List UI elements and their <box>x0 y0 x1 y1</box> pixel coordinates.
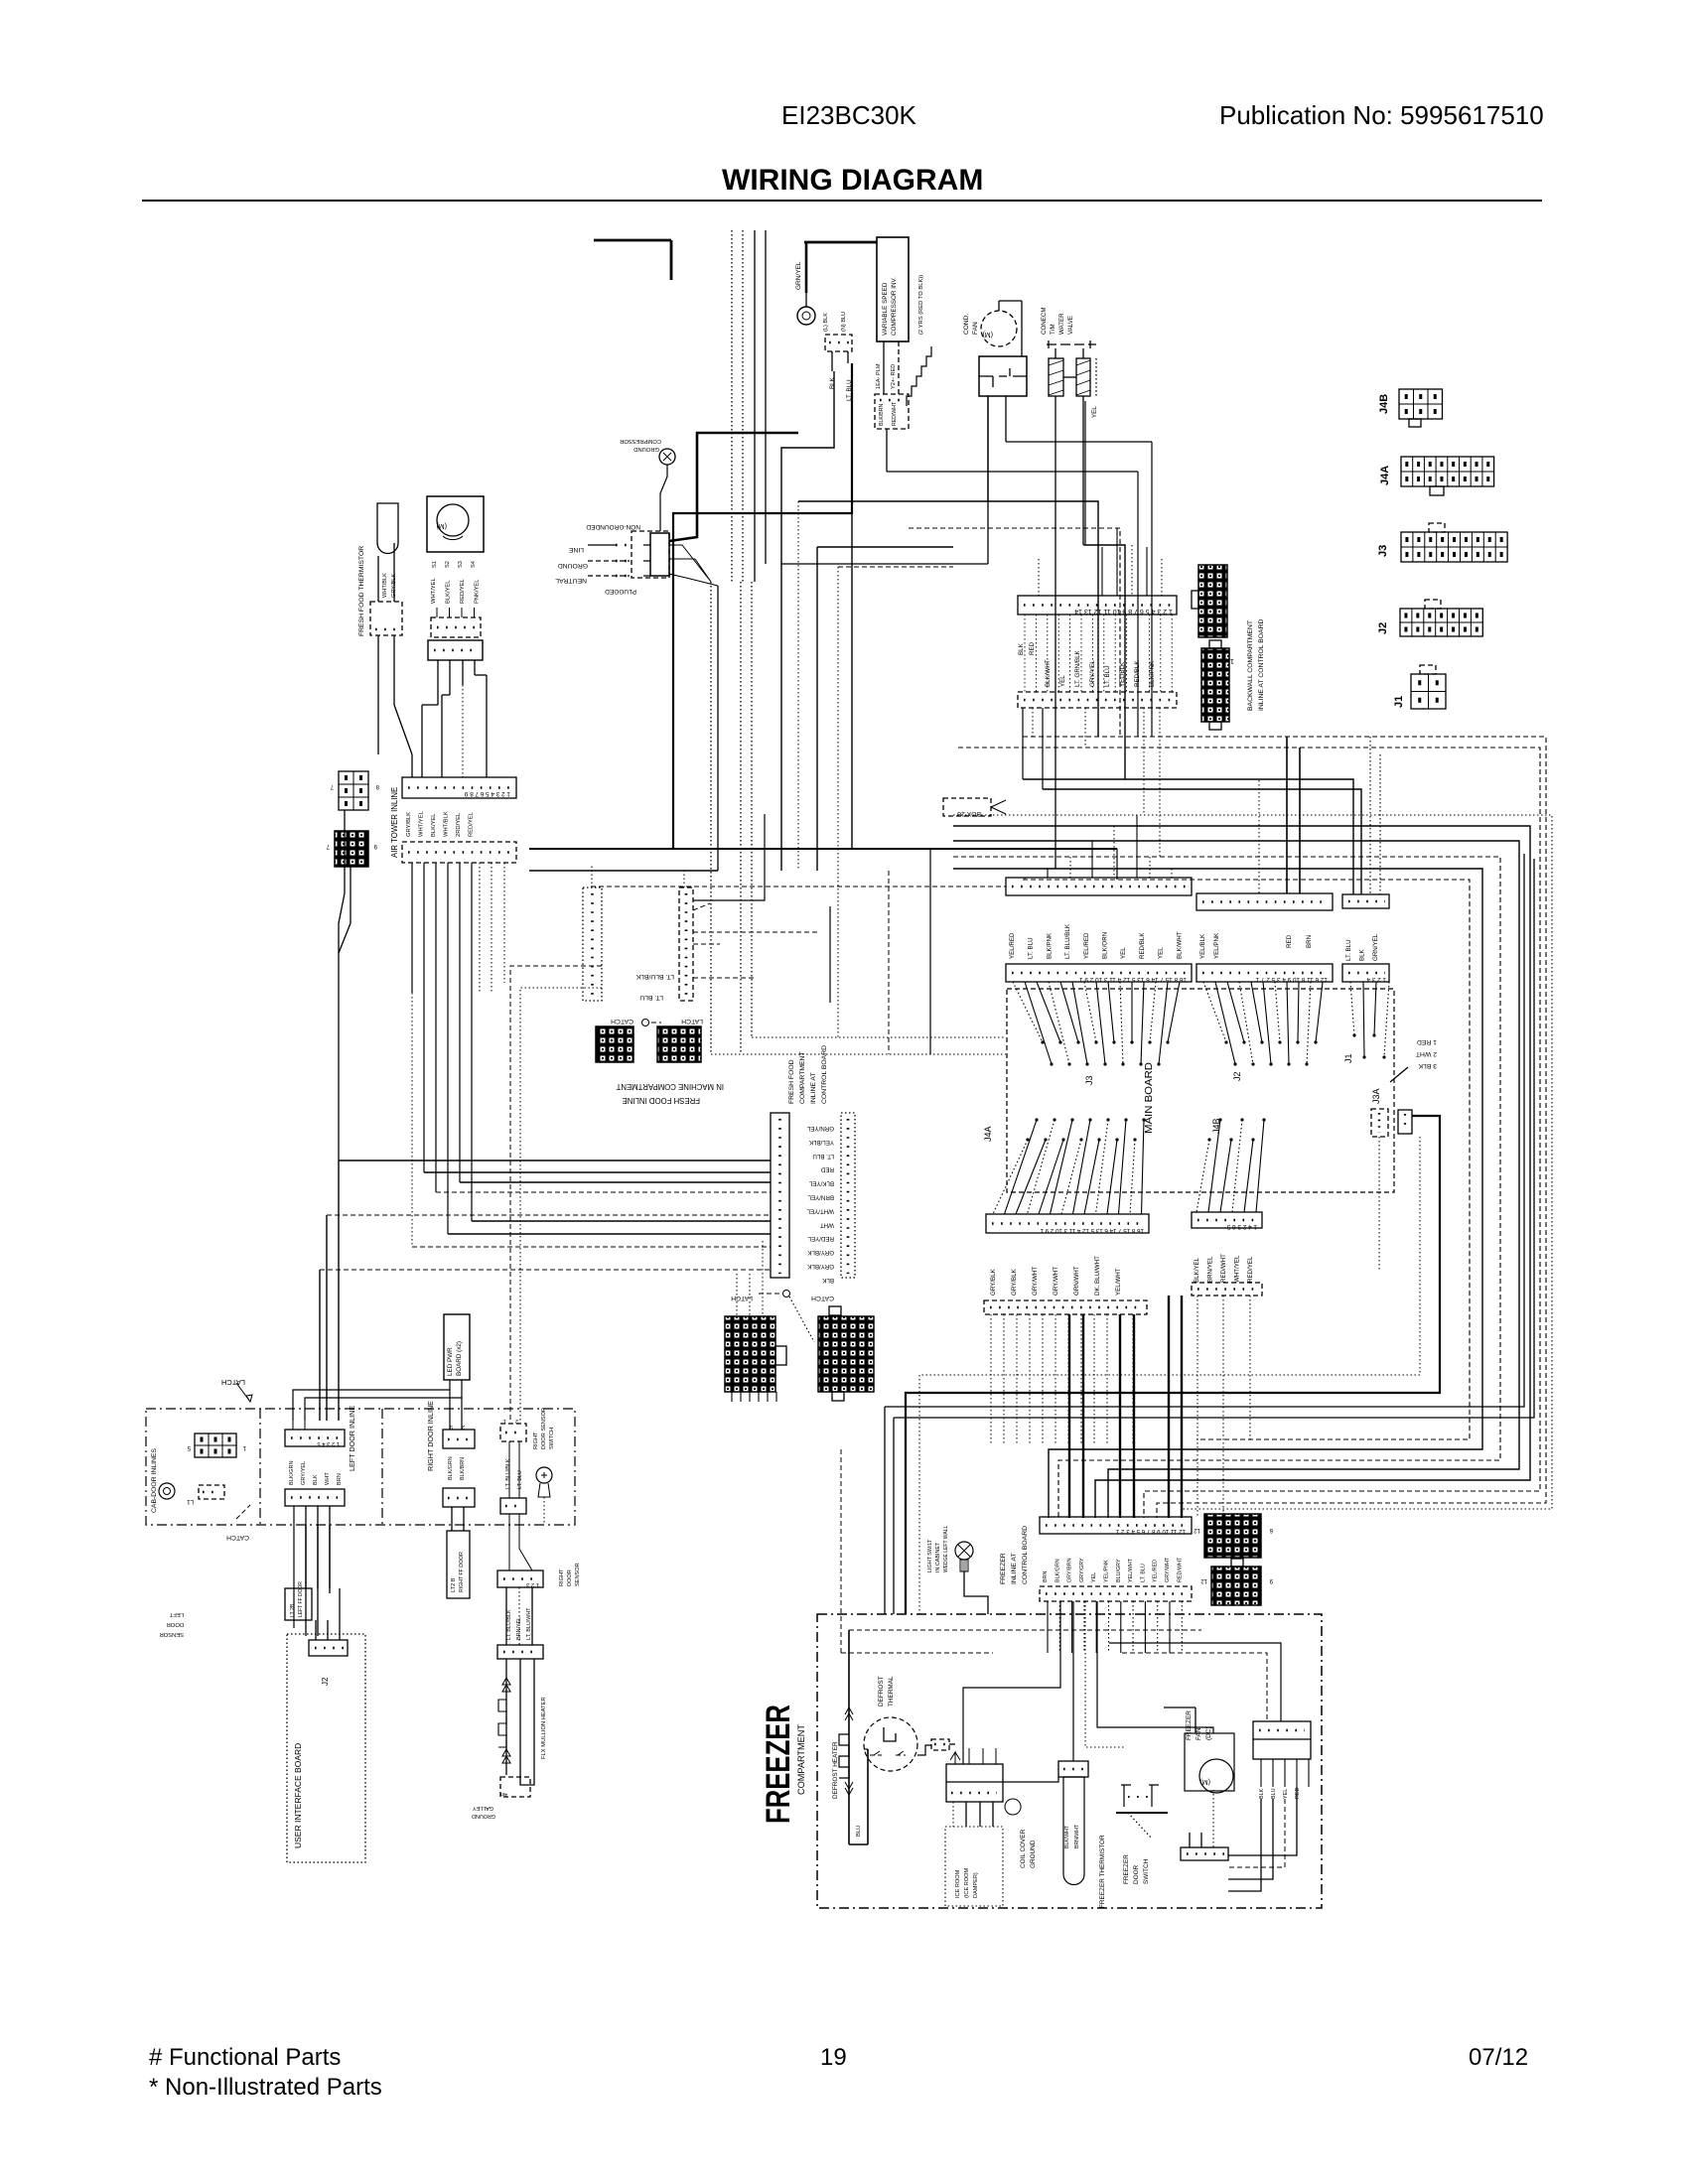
svg-text:16 8 15 7 14 6 13 5 12 4 11 3: 16 8 15 7 14 6 13 5 12 4 11 3 10 2 9 1 <box>1079 976 1187 983</box>
main board J2 labels <box>1199 932 1313 959</box>
svg-text:GRN/YEL: GRN/YEL <box>795 261 802 290</box>
svg-text:FRESH FOOD THERMISTOR: FRESH FOOD THERMISTOR <box>358 546 365 636</box>
label inverter rating <box>918 275 924 335</box>
svg-text:YEL: YEL <box>1120 947 1127 959</box>
svg-text:DK. BLU/WHT: DK. BLU/WHT <box>1094 1256 1101 1296</box>
svg-text:LT. BLU: LT. BLU <box>1104 665 1111 687</box>
label catch latch upper <box>611 1018 703 1026</box>
svg-text:J3A: J3A <box>1371 1088 1381 1104</box>
svg-text:CONECM: CONECM <box>1041 308 1048 336</box>
svg-text:CATCH: CATCH <box>611 1018 633 1024</box>
wire left door lower drops <box>294 1506 330 1636</box>
label AIR TOWER INLINE <box>390 787 399 858</box>
label in machine compartment <box>616 1082 724 1105</box>
svg-text:GRY/BLK: GRY/BLK <box>1011 1268 1018 1296</box>
machine compartment latch block <box>657 1026 701 1062</box>
air tower plug row <box>402 842 516 863</box>
defrost heater element HT1 <box>839 1707 853 1795</box>
label BLU <box>856 1826 862 1837</box>
svg-text:LT. GRN/BLK: LT. GRN/BLK <box>1074 649 1081 687</box>
ground ring terminal <box>797 242 815 325</box>
wire J4A plug drops <box>991 1314 1133 1444</box>
svg-text:GRN/WHT: GRN/WHT <box>1073 1266 1080 1296</box>
damper junction box <box>428 640 483 660</box>
wire fanout J1 <box>1350 982 1389 1059</box>
svg-text:L1: L1 <box>187 1498 194 1504</box>
svg-text:J4B: J4B <box>1378 394 1390 414</box>
wire y549 run <box>1085 545 1125 779</box>
main board J3 labels <box>1009 923 1183 959</box>
label LATCH pointer <box>221 1378 252 1402</box>
wire freezer inline drops <box>1048 1601 1182 1653</box>
svg-text:CAB-DOOR INLINES: CAB-DOOR INLINES <box>151 1448 158 1513</box>
svg-text:GRY/BLK: GRY/BLK <box>990 1268 997 1296</box>
svg-text:LT. BLU/BLK: LT. BLU/BLK <box>1064 923 1071 959</box>
label FREEZER DOOR SWITCH <box>1123 1854 1150 1884</box>
label freezer light <box>927 1526 949 1572</box>
main J4A labels <box>990 1256 1122 1296</box>
svg-text:AIR TOWER INLINE: AIR TOWER INLINE <box>390 787 399 858</box>
svg-text:YEL: YEL <box>1283 1789 1289 1799</box>
defrost heater wire <box>849 1630 868 1844</box>
svg-text:1EA- PLM: 1EA- PLM <box>876 363 882 389</box>
LED power board <box>444 1314 470 1380</box>
label NON-GROUNDED <box>586 523 640 530</box>
freezer molex upper <box>1194 1514 1273 1558</box>
svg-text:1 2 3 4 5 6 7 8 9: 1 2 3 4 5 6 7 8 9 <box>464 790 510 797</box>
backwall inline header <box>1018 596 1177 614</box>
svg-text:LT, BLU/BLK: LT, BLU/BLK <box>506 1609 512 1640</box>
svg-text:GRY/WHT: GRY/WHT <box>1053 1267 1059 1296</box>
freezer inline plug row <box>1040 1586 1192 1601</box>
svg-text:CATCH: CATCH <box>226 1534 249 1541</box>
wire J2 plug feeds <box>1259 737 1300 893</box>
ice room box <box>945 1827 1003 1906</box>
svg-text:LT, BLU/BLK: LT, BLU/BLK <box>505 1458 511 1489</box>
svg-text:DOOR: DOOR <box>167 1621 184 1627</box>
svg-text:BLK/GRN: BLK/GRN <box>289 1460 295 1485</box>
label MAIN BOARD <box>1144 1062 1155 1134</box>
svg-text:BLK/YEL: BLK/YEL <box>808 1180 834 1187</box>
left door lower connector <box>285 1489 345 1506</box>
freezer inline labels <box>1043 1557 1183 1582</box>
svg-text:SWITCH: SWITCH <box>1143 1858 1150 1884</box>
air tower header <box>402 777 516 798</box>
label plugged <box>605 588 636 595</box>
galley ground <box>472 1777 530 1819</box>
lid switch box <box>447 1531 470 1598</box>
connector J4A <box>1379 457 1494 495</box>
svg-text:1 2 3 4 5 6 7 8 9 10 11 12 13: 1 2 3 4 5 6 7 8 9 10 11 12 13 14 <box>1074 608 1173 614</box>
main board J2 plug row <box>1196 893 1333 910</box>
svg-text:GROUND: GROUND <box>558 562 588 569</box>
svg-text:COMPARTMENT: COMPARTMENT <box>796 1723 806 1795</box>
svg-text:YEL/BLK: YEL/BLK <box>1199 933 1206 959</box>
svg-text:J4A: J4A <box>1379 466 1391 485</box>
main board J1 header <box>1342 964 1389 983</box>
defrost thermo connector <box>917 1739 955 1755</box>
svg-text:BLK/YEL: BLK/YEL <box>1194 1257 1200 1283</box>
svg-text:SWITCH: SWITCH <box>549 1428 555 1449</box>
svg-text:YEL/BLK: YEL/BLK <box>1119 661 1126 687</box>
wire bus right wrap 1 <box>1023 737 1546 1518</box>
backwall molex upper <box>1192 565 1227 637</box>
svg-text:YEL: YEL <box>1059 675 1066 687</box>
svg-text:J4A: J4A <box>983 1126 993 1142</box>
air tower labels <box>406 810 475 837</box>
label GRN/YEL <box>795 261 802 290</box>
connector J3A <box>1371 1109 1388 1137</box>
label J3A <box>1371 1088 1381 1104</box>
svg-text:1 2 3 4: 1 2 3 4 <box>1366 976 1386 983</box>
svg-text:BLK/WHT: BLK/WHT <box>1045 659 1052 687</box>
label right door sensor lower <box>559 1563 581 1586</box>
svg-text:YEL/RED: YEL/RED <box>1009 932 1016 959</box>
wire bus fresh food 3 <box>460 1181 771 1183</box>
catch block lower <box>789 1297 874 1401</box>
wire y571 dashed <box>838 567 953 1037</box>
wire bus right wrap 4 <box>953 826 1530 1518</box>
svg-text:LT. BLU: LT. BLU <box>639 994 663 1001</box>
fresh food thermistor RT1 <box>358 503 398 636</box>
svg-text:16 8 15 7 14 6 13 5 12 4 11 3: 16 8 15 7 14 6 13 5 12 4 11 3 10 2 9 1 <box>1040 1227 1144 1234</box>
svg-text:LT 2B: LT 2B <box>290 1603 296 1617</box>
svg-text:DAMPER): DAMPER) <box>973 1872 979 1898</box>
wire grid drops <box>339 810 351 1160</box>
svg-text:FLX MULLION HEATER: FLX MULLION HEATER <box>541 1697 547 1759</box>
svg-text:BLK/BRN: BLK/BRN <box>460 1457 466 1480</box>
condenser fan motor M1 <box>981 301 1022 356</box>
svg-text:BLK/PNK: BLK/PNK <box>1149 660 1156 687</box>
svg-text:(M): (M) <box>1200 1778 1211 1785</box>
svg-text:BRN/YEL: BRN/YEL <box>807 1194 834 1201</box>
wire bus right wrap 8 <box>1023 880 1470 1439</box>
svg-text:BLK/GRN: BLK/GRN <box>448 1456 454 1480</box>
svg-text:YEL/WHT: YEL/WHT <box>1128 1558 1134 1582</box>
latch block lower <box>725 1316 786 1402</box>
wire terminal to ice room <box>953 1802 993 1827</box>
main J4B labels <box>1194 1254 1254 1283</box>
label BLK <box>829 376 836 389</box>
svg-text:GRY/WHT: GRY/WHT <box>1032 1267 1039 1296</box>
svg-text:LEFT DOOR INLINE: LEFT DOOR INLINE <box>348 1406 356 1471</box>
svg-text:COND.: COND. <box>963 314 970 335</box>
svg-text:WHT/YEL: WHT/YEL <box>806 1207 834 1214</box>
mullion connector <box>497 1645 543 1659</box>
svg-text:DEFROST: DEFROST <box>878 1676 885 1706</box>
main board J3 plug row <box>1006 878 1192 895</box>
fresh food inline left column <box>771 1113 789 1278</box>
svg-text:T/M: T/M <box>1050 324 1056 335</box>
svg-text:IN CABINET: IN CABINET <box>935 1542 941 1572</box>
label COND FAN <box>963 314 979 335</box>
svg-text:12 11 10 9 8 7 6 5 4 3 2 1: 12 11 10 9 8 7 6 5 4 3 2 1 <box>1115 1528 1186 1535</box>
svg-text:2RD/YEL: 2RD/YEL <box>456 812 462 837</box>
svg-text:BRN: BRN <box>1043 1571 1049 1582</box>
wire backwall drops <box>1025 614 1172 692</box>
svg-text:BLK: BLK <box>829 376 836 389</box>
wire top vertical bus <box>732 230 766 582</box>
svg-text:WATER: WATER <box>1058 313 1065 335</box>
svg-text:GRY/GRY: GRY/GRY <box>1079 1558 1085 1582</box>
svg-text:LT, BLU/WHT: LT, BLU/WHT <box>526 1607 532 1640</box>
svg-text:2: 2 <box>515 1418 518 1424</box>
label J3 <box>1084 1075 1094 1085</box>
svg-text:RED: RED <box>1029 641 1036 655</box>
latch connector small <box>187 1485 224 1504</box>
ui connector J2 <box>309 1640 348 1686</box>
svg-text:FREEZER: FREEZER <box>1123 1854 1130 1884</box>
wire bus right wrap 3 <box>953 815 1552 1509</box>
svg-text:GRY/BLK: GRY/BLK <box>806 1263 834 1270</box>
svg-text:* Non-Illustrated Parts: * Non-Illustrated Parts <box>149 2074 382 2101</box>
svg-text:YEL/PNK: YEL/PNK <box>1213 932 1220 959</box>
wire fanout J4B <box>1196 1118 1266 1212</box>
svg-text:DOOR: DOOR <box>567 1570 573 1586</box>
label LT BLU/BLK col <box>635 973 674 980</box>
svg-text:19: 19 <box>820 2044 847 2071</box>
wire cond fan runs <box>781 396 1152 737</box>
svg-text:GRY/WHT: GRY/WHT <box>1165 1557 1171 1582</box>
footer page number <box>820 2044 847 2071</box>
freezer compartment box <box>817 1614 1322 1908</box>
wire y855 extension <box>907 849 1117 880</box>
svg-text:INLINE AT: INLINE AT <box>810 1072 817 1104</box>
svg-text:J2: J2 <box>321 1677 330 1686</box>
svg-text:VARIABLE SPEED: VARIABLE SPEED <box>882 282 889 336</box>
connector J4B <box>1378 389 1443 427</box>
svg-text:LATCH: LATCH <box>681 1018 703 1024</box>
label J2 <box>1232 1071 1242 1081</box>
svg-text:YEL/RED: YEL/RED <box>1153 1560 1159 1582</box>
box BOX26 inline <box>943 798 1006 817</box>
svg-text:WHT: WHT <box>820 1221 834 1228</box>
mullion heater HT2 <box>498 1659 534 1785</box>
wire mains fan-out <box>669 545 718 586</box>
backwall inline plug row <box>1018 692 1177 708</box>
wire BLK run <box>781 371 834 871</box>
label DEFROST HEATER <box>832 1741 839 1799</box>
svg-text:(M): (M) <box>983 331 994 338</box>
svg-text:12: 12 <box>1200 1577 1207 1583</box>
wire bus to J3 comb <box>1025 815 1172 880</box>
wire lid switch <box>452 1507 464 1531</box>
svg-text:SENSOR: SENSOR <box>575 1563 581 1586</box>
door sensor connector <box>497 1570 543 1587</box>
svg-text:FRESH FOOD INLINE: FRESH FOOD INLINE <box>623 1096 700 1105</box>
main J4B header <box>1192 1212 1262 1230</box>
svg-text:Y2+- RED: Y2+- RED <box>891 364 897 389</box>
svg-text:RED/BLK: RED/BLK <box>1134 660 1141 687</box>
svg-text:LIGHT SW/LT: LIGHT SW/LT <box>927 1539 933 1572</box>
label LEFT DOOR INLINE <box>348 1406 356 1471</box>
svg-text:RED/YEL: RED/YEL <box>469 811 475 837</box>
svg-text:07/12: 07/12 <box>1469 2044 1528 2071</box>
svg-text:RED: RED <box>1295 1788 1301 1799</box>
title rule <box>142 200 1542 202</box>
svg-text:CONTROL BOARD: CONTROL BOARD <box>1022 1526 1029 1584</box>
header publication number <box>1219 100 1544 130</box>
svg-text:YEL: YEL <box>1158 947 1165 959</box>
wire bus fresh food 1 <box>339 1160 771 1161</box>
label J4B <box>1211 1118 1221 1134</box>
main board J1 labels <box>1345 933 1379 961</box>
svg-text:GRY/YEL: GRY/YEL <box>301 1461 307 1485</box>
fresh food vertical connector A <box>583 887 602 1001</box>
catch circle <box>159 1483 175 1499</box>
svg-text:BLK/GRN: BLK/GRN <box>1055 1559 1060 1582</box>
wire freezer feed verticals <box>1069 1296 1182 1518</box>
label LT BLU col <box>639 994 663 1001</box>
label freezer inline <box>1000 1526 1029 1584</box>
label LEFT DOOR SENSOR <box>160 1611 184 1637</box>
left door labels <box>289 1460 343 1485</box>
label COMPARTMENT <box>796 1723 806 1795</box>
wire thermistor to air tower <box>378 635 412 777</box>
label J4A <box>983 1126 993 1142</box>
svg-text:LINE: LINE <box>568 546 584 553</box>
svg-text:LT. BLU: LT. BLU <box>1345 939 1352 961</box>
wire backwall top feeds <box>1039 528 1162 596</box>
svg-text:FREEZER: FREEZER <box>1186 1710 1193 1740</box>
svg-text:BLK: BLK <box>821 1277 834 1284</box>
svg-text:BLK: BLK <box>313 1474 319 1485</box>
svg-text:FREEZER THERMISTOR: FREEZER THERMISTOR <box>1099 1835 1106 1908</box>
svg-text:RED: RED <box>820 1166 834 1173</box>
svg-text:4in: 4in <box>500 1791 507 1797</box>
label cab-door inlines <box>151 1448 158 1513</box>
wire conn A stubs <box>510 864 684 1422</box>
svg-text:CATCH: CATCH <box>811 1295 834 1301</box>
svg-text:DEFROST HEATER: DEFROST HEATER <box>832 1741 839 1799</box>
svg-text:GROUND: GROUND <box>1030 1840 1037 1868</box>
compressor inverter U1 <box>877 237 909 341</box>
svg-text:FREEZER: FREEZER <box>760 1705 797 1824</box>
svg-text:DOOR: DOOR <box>1133 1864 1140 1884</box>
svg-text:BOX 26: BOX 26 <box>957 810 981 817</box>
label FREEZER THERMISTOR <box>1099 1835 1106 1908</box>
wire bus fresh food 9 <box>320 1269 771 1271</box>
freezer right connector <box>1253 1721 1311 1787</box>
svg-text:BRN: BRN <box>1306 935 1313 948</box>
svg-text:FAN: FAN <box>972 322 979 335</box>
svg-text:BLK/BRN: BLK/BRN <box>879 404 885 426</box>
latch grid connector <box>187 1433 246 1457</box>
wire LT BLU run <box>673 363 852 849</box>
svg-text:WHT/YEL: WHT/YEL <box>431 577 437 604</box>
wire compressor dashed run <box>909 528 1120 737</box>
svg-text:YEL/BLK: YEL/BLK <box>808 1139 834 1146</box>
compressor ground ring <box>620 438 675 531</box>
svg-text:J2: J2 <box>1232 1071 1242 1081</box>
svg-text:VALVE: VALVE <box>1067 316 1074 335</box>
wire bus fresh food 6 <box>472 1220 771 1222</box>
main board J1 plug row <box>1342 894 1389 908</box>
label DEFROST THERMAL <box>878 1676 895 1706</box>
svg-text:ICE ROOM: ICE ROOM <box>955 1869 961 1898</box>
svg-text:BLK/YEL: BLK/YEL <box>446 580 452 604</box>
svg-text:LT. BLU: LT. BLU <box>812 1153 834 1160</box>
svg-text:NEUTRAL: NEUTRAL <box>555 577 587 584</box>
wire backwall to bus drops <box>1023 708 1160 857</box>
wire bus fresh food 8 <box>412 1246 771 1248</box>
wire water valve down <box>1055 396 1085 869</box>
left door inline connector <box>285 1430 345 1446</box>
svg-text:PNK/YEL: PNK/YEL <box>475 579 481 604</box>
label J1 <box>1343 1053 1353 1063</box>
compressor terminal block <box>875 341 909 429</box>
svg-text:1 RED: 1 RED <box>1417 1038 1437 1045</box>
right door sensor key switch <box>536 1467 552 1525</box>
main J4A header <box>986 1214 1149 1234</box>
svg-text:PLUGGED: PLUGGED <box>605 588 636 595</box>
freezer fan connector <box>1181 1790 1228 1860</box>
svg-text:LATCH: LATCH <box>221 1378 245 1387</box>
svg-text:LEFT: LEFT <box>169 1611 184 1617</box>
backwall molex lower <box>1201 640 1234 730</box>
mains plug P1 <box>632 531 669 578</box>
svg-text:LT. BLU/BLK: LT. BLU/BLK <box>635 973 674 980</box>
wire bus right wrap 6 <box>953 857 1500 1518</box>
svg-text:BLU: BLU <box>856 1826 862 1837</box>
main board outline <box>1007 989 1394 1192</box>
air tower molex connector <box>326 831 377 867</box>
wire bus right wrap 7 <box>953 869 1482 1518</box>
wire bus fresh food 5 <box>327 1214 771 1216</box>
svg-text:RED: RED <box>1286 934 1293 948</box>
svg-text:1: 1 <box>503 1418 506 1424</box>
label LT BLU <box>846 379 853 401</box>
svg-text:WHT: WHT <box>325 1472 331 1485</box>
wire y505 run <box>798 501 1098 737</box>
mullion labels <box>506 1607 532 1640</box>
svg-text:2 WHT: 2 WHT <box>1416 1050 1437 1057</box>
wire fanout J3 <box>1013 982 1180 1066</box>
svg-text:RED/WHT: RED/WHT <box>1220 1254 1227 1283</box>
wire J1 feeds <box>1023 737 1380 894</box>
svg-text:BLK/YEL: BLK/YEL <box>431 813 437 837</box>
svg-text:BLU: BLU <box>1271 1788 1277 1799</box>
freezer thermistor RT2 <box>1058 1761 1088 1885</box>
wire led pwr routing <box>293 1380 462 1430</box>
label CATCH lower-left <box>226 1505 250 1541</box>
svg-text:GRY/BRN: GRY/BRN <box>1067 1558 1073 1582</box>
main J4A plug row <box>984 1300 1147 1314</box>
svg-text:3 BLK: 3 BLK <box>1418 1062 1437 1069</box>
footer date <box>1469 2044 1528 2071</box>
fresh food inline labels <box>806 1125 834 1284</box>
svg-text:BRN/WHT: BRN/WHT <box>1074 1824 1080 1848</box>
fresh food inline right column <box>841 1113 855 1278</box>
compressor plug connector <box>825 335 852 371</box>
user interface board <box>287 1634 365 1862</box>
svg-text:1 4 2 3 6 5: 1 4 2 3 6 5 <box>1226 1223 1257 1230</box>
wire bus fresh food 4 <box>436 1191 771 1193</box>
svg-text:THERMAL: THERMAL <box>888 1676 895 1706</box>
lt blu labels <box>505 1458 523 1489</box>
svg-text:BLK/WHT: BLK/WHT <box>1064 1825 1070 1848</box>
svg-text:(2 YRS (RED TO BLK)): (2 YRS (RED TO BLK)) <box>918 275 924 335</box>
svg-text:EI23BC30K: EI23BC30K <box>781 100 917 130</box>
svg-text:GRY/BLK: GRY/BLK <box>806 1249 834 1256</box>
freezer door switch S2 <box>1116 1785 1168 1839</box>
wire mid vertical bus <box>711 582 752 1054</box>
svg-text:WHT/YEL: WHT/YEL <box>419 810 425 837</box>
svg-text:1 2 3 4 5: 1 2 3 4 5 <box>317 1440 340 1446</box>
svg-text:YEL/RED: YEL/RED <box>1083 932 1090 959</box>
svg-text:RED/YEL: RED/YEL <box>1247 1256 1254 1283</box>
defrost thermostat S1 <box>864 1717 917 1771</box>
